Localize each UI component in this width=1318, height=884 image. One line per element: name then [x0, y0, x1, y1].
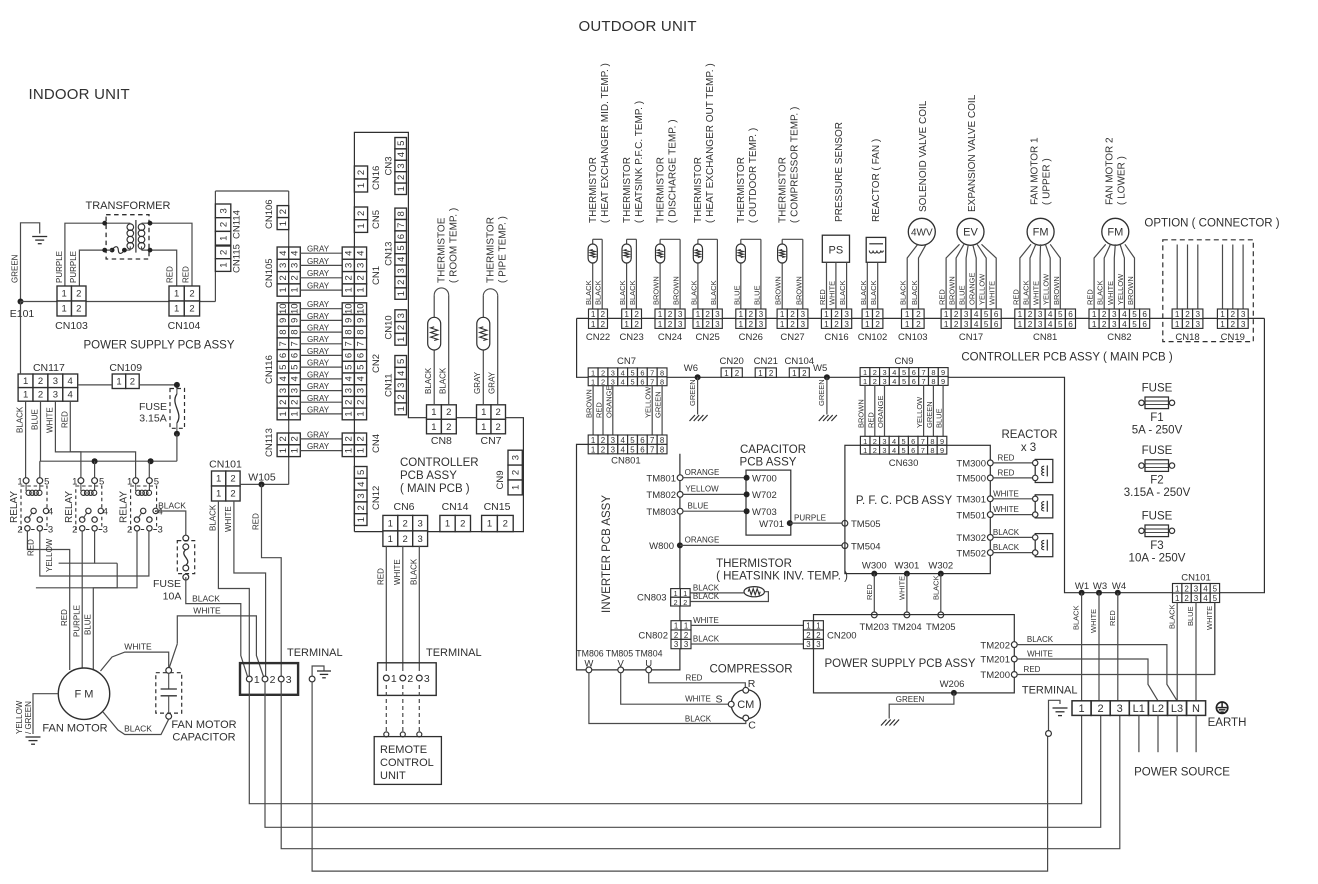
- svg-text:W5: W5: [813, 363, 827, 374]
- connector CN103: [55, 286, 88, 332]
- svg-text:2: 2: [17, 525, 22, 536]
- svg-text:2: 2: [873, 368, 877, 377]
- svg-text:1: 1: [278, 287, 289, 292]
- connector CN25: [693, 309, 722, 343]
- svg-text:THERMISTOE: THERMISTOE: [437, 217, 448, 283]
- thermistor CN22 ( HEAT EXCHANGER MID. TEMP. ): [584, 63, 611, 309]
- svg-text:EXPANSION VALVE COIL: EXPANSION VALVE COIL: [967, 94, 978, 212]
- svg-text:1: 1: [396, 291, 407, 296]
- svg-text:BROWN: BROWN: [652, 276, 661, 305]
- svg-text:5A - 250V: 5A - 250V: [1132, 424, 1183, 436]
- svg-text:3: 3: [816, 640, 821, 649]
- svg-text:3: 3: [674, 640, 679, 649]
- svg-text:2: 2: [873, 437, 877, 446]
- svg-text:6: 6: [912, 368, 916, 377]
- svg-text:W300: W300: [862, 561, 887, 572]
- svg-text:TM806: TM806: [576, 648, 603, 658]
- svg-text:CN802: CN802: [638, 631, 668, 642]
- fuse F1: [1132, 382, 1183, 436]
- svg-text:8: 8: [930, 437, 934, 446]
- svg-text:1: 1: [344, 411, 355, 416]
- svg-text:GREEN: GREEN: [11, 254, 20, 283]
- svg-text:2: 2: [407, 673, 413, 685]
- wire RED U to compressor R: [649, 673, 756, 693]
- svg-text:EARTH: EARTH: [1208, 717, 1247, 729]
- svg-text:RED: RED: [1011, 289, 1020, 305]
- wire WHITE CN101-2 to terminal 2: [224, 501, 266, 677]
- svg-text:TM805: TM805: [606, 648, 633, 658]
- svg-text:REACTOR ( FAN ): REACTOR ( FAN ): [871, 139, 882, 222]
- svg-text:4: 4: [621, 445, 626, 454]
- svg-text:YELLOW: YELLOW: [644, 386, 653, 418]
- wire BLACK CN6-3 to terminal: [410, 546, 420, 671]
- controller pcb assy outline (outdoor): [577, 318, 1265, 592]
- svg-text:GREEN: GREEN: [896, 695, 925, 704]
- svg-text:THERMISTOR: THERMISTOR: [486, 217, 497, 283]
- svg-text:1: 1: [806, 622, 810, 631]
- svg-text:RED: RED: [252, 513, 261, 530]
- wires GRAY CN105 to CN1: [300, 245, 342, 291]
- svg-text:1: 1: [356, 287, 367, 292]
- svg-text:1: 1: [1220, 310, 1225, 319]
- svg-text:3: 3: [882, 377, 886, 386]
- svg-text:TM803: TM803: [646, 507, 676, 518]
- svg-text:1: 1: [431, 422, 436, 433]
- svg-text:4: 4: [1048, 320, 1053, 329]
- svg-text:3.15A: 3.15A: [139, 413, 166, 425]
- wire YELLOW TM802 to W702: [646, 485, 776, 502]
- svg-text:2: 2: [601, 445, 605, 454]
- wire BLUE CN117-2 to relay coil bus: [31, 401, 41, 461]
- fan motor CN81 FAN MOTOR 1: [1011, 137, 1060, 309]
- svg-text:WHITE: WHITE: [1089, 609, 1098, 633]
- wire RED TM500 to reactor 1: [956, 468, 1037, 484]
- svg-text:2: 2: [396, 325, 407, 330]
- svg-text:BLUE: BLUE: [732, 285, 741, 305]
- svg-text:3: 3: [1196, 310, 1201, 319]
- wire harness bus (power supply side): [288, 191, 290, 456]
- svg-text:( HEATSINK P.F.C. TEMP. ): ( HEATSINK P.F.C. TEMP. ): [634, 101, 645, 223]
- svg-text:1: 1: [865, 310, 870, 319]
- svg-text:8: 8: [660, 369, 664, 378]
- svg-text:CN9: CN9: [495, 470, 506, 489]
- svg-text:RED: RED: [61, 411, 70, 428]
- svg-text:2: 2: [601, 436, 605, 445]
- svg-text:CN200: CN200: [827, 631, 857, 642]
- svg-text:F1: F1: [1150, 412, 1163, 424]
- svg-text:10: 10: [278, 303, 289, 314]
- wire WHITE V to compressor S: [621, 673, 734, 707]
- indoor unit title: [29, 86, 130, 103]
- svg-text:1: 1: [591, 310, 596, 319]
- svg-text:CN109: CN109: [109, 362, 142, 374]
- svg-text:3: 3: [715, 310, 720, 319]
- wire BLUE relay RY3 to fan motor: [84, 531, 138, 670]
- svg-text:GRAY: GRAY: [307, 382, 330, 391]
- svg-text:W800: W800: [649, 541, 674, 552]
- svg-text:2: 2: [705, 320, 710, 329]
- svg-text:BROWN: BROWN: [774, 276, 783, 305]
- svg-text:( PIPE TEMP. ): ( PIPE TEMP. ): [498, 216, 509, 283]
- power supply pcb assy (outdoor): [814, 615, 1015, 693]
- svg-text:ORANGE: ORANGE: [685, 468, 720, 477]
- svg-text:1: 1: [1175, 585, 1180, 594]
- svg-text:3: 3: [53, 390, 58, 401]
- svg-text:1: 1: [481, 407, 486, 418]
- wire WHITE TM501 to reactor 2: [956, 505, 1037, 521]
- reactor 2: [1035, 495, 1053, 518]
- svg-text:8: 8: [660, 436, 665, 445]
- svg-text:4: 4: [290, 376, 301, 381]
- svg-text:3: 3: [157, 525, 162, 536]
- controller pcb assy label (indoor): [400, 457, 479, 495]
- svg-text:1: 1: [218, 262, 229, 267]
- svg-text:7: 7: [922, 368, 926, 377]
- svg-text:BLACK: BLACK: [993, 528, 1020, 537]
- svg-text:3: 3: [964, 320, 969, 329]
- svg-text:TM502: TM502: [956, 548, 986, 559]
- wire WHITE CN802-1 to CN200: [691, 616, 803, 626]
- svg-text:7: 7: [278, 341, 289, 346]
- svg-text:BLACK: BLACK: [931, 575, 940, 600]
- svg-text:CN14: CN14: [442, 501, 469, 513]
- svg-text:L2: L2: [1152, 703, 1164, 715]
- svg-text:3: 3: [344, 263, 355, 268]
- remote control unit: [374, 737, 441, 785]
- wire BLUE CN101-3 to terminal N: [1186, 603, 1196, 701]
- svg-text:4: 4: [344, 251, 355, 256]
- svg-text:CN17: CN17: [959, 332, 983, 343]
- svg-text:1: 1: [487, 519, 492, 530]
- ground (outdoor terminal): [1046, 700, 1068, 736]
- svg-text:TM301: TM301: [956, 495, 986, 506]
- reactor 3: [1035, 534, 1053, 557]
- svg-text:BLACK: BLACK: [1022, 280, 1031, 305]
- wire E101 GREEN down to CN117 pin1: [20, 302, 22, 375]
- wire RED CN117-4 to relay RY3: [61, 401, 136, 477]
- svg-text:BLACK: BLACK: [424, 367, 433, 394]
- node E101: [10, 299, 35, 321]
- svg-text:OUTDOOR UNIT: OUTDOOR UNIT: [579, 18, 697, 35]
- svg-text:CAPACITOR: CAPACITOR: [740, 444, 806, 456]
- svg-text:7: 7: [356, 341, 367, 346]
- svg-text:BLACK: BLACK: [594, 280, 603, 305]
- svg-text:RED: RED: [998, 468, 1015, 477]
- svg-text:1: 1: [216, 474, 221, 485]
- pressure sensor PS: [818, 122, 850, 309]
- svg-text:1: 1: [396, 186, 407, 191]
- svg-text:2: 2: [954, 320, 959, 329]
- svg-text:4WV: 4WV: [911, 228, 933, 239]
- svg-text:2: 2: [674, 599, 678, 607]
- node W6 with ground: [684, 363, 708, 421]
- svg-text:WHITE: WHITE: [1032, 281, 1041, 305]
- svg-text:WHITE: WHITE: [1106, 281, 1115, 305]
- svg-text:1: 1: [396, 337, 407, 342]
- thermistor (room temp.): [424, 208, 460, 405]
- svg-text:GRAY: GRAY: [488, 371, 497, 394]
- svg-text:2: 2: [1098, 703, 1104, 715]
- svg-text:1: 1: [1078, 703, 1084, 715]
- svg-text:OPTION ( CONNECTOR ): OPTION ( CONNECTOR ): [1144, 218, 1279, 230]
- svg-text:3: 3: [356, 263, 367, 268]
- svg-text:FUSE: FUSE: [1142, 445, 1173, 457]
- svg-text:BLUE: BLUE: [84, 614, 93, 635]
- wire YELLOW/GREEN fan motor to ground: [15, 694, 58, 734]
- svg-text:6: 6: [1142, 320, 1147, 329]
- svg-text:2: 2: [1102, 310, 1107, 319]
- svg-text:WHITE: WHITE: [1205, 606, 1214, 630]
- svg-text:CN16: CN16: [371, 166, 382, 190]
- svg-text:CN9: CN9: [894, 356, 913, 367]
- svg-text:2: 2: [634, 310, 639, 319]
- connector CN3: [384, 138, 407, 195]
- svg-text:CN21: CN21: [754, 356, 778, 367]
- svg-text:RED: RED: [182, 266, 191, 283]
- svg-text:3: 3: [678, 310, 683, 319]
- svg-text:1: 1: [391, 673, 397, 685]
- svg-text:GRAY: GRAY: [307, 347, 330, 356]
- wire WHITE TM301 to reactor 2: [956, 489, 1037, 505]
- svg-text:TM505: TM505: [851, 519, 881, 530]
- svg-text:INVERTER PCB ASSY: INVERTER PCB ASSY: [601, 495, 613, 613]
- svg-text:3: 3: [278, 388, 289, 393]
- wire BLACK W to compressor C: [589, 673, 756, 732]
- svg-text:F3: F3: [1150, 540, 1163, 552]
- svg-text:GRAY: GRAY: [473, 371, 482, 394]
- svg-text:3: 3: [715, 320, 720, 329]
- nodes TM806 TM805 TM804 (U V W): [576, 648, 662, 672]
- terminal block (outdoor): [1022, 685, 1206, 716]
- wire WHITE TM201 to terminal L2: [980, 649, 1158, 700]
- svg-text:4: 4: [1122, 310, 1127, 319]
- connector CN6: [383, 501, 428, 546]
- svg-text:CN1: CN1: [371, 266, 382, 285]
- svg-text:1: 1: [396, 406, 407, 411]
- svg-text:6: 6: [344, 353, 355, 358]
- svg-text:1: 1: [290, 287, 301, 292]
- svg-text:2: 2: [1102, 320, 1107, 329]
- svg-text:FUSE: FUSE: [1142, 510, 1173, 522]
- svg-text:2: 2: [76, 289, 81, 300]
- svg-text:1: 1: [218, 236, 229, 241]
- wires dashed terminal to remote control unit: [384, 685, 422, 737]
- svg-text:BLUE: BLUE: [1186, 606, 1195, 626]
- svg-text:WHITE: WHITE: [685, 695, 711, 704]
- reactor 1: [1035, 459, 1053, 482]
- connector CN116: [264, 303, 301, 420]
- svg-text:BLUE: BLUE: [958, 285, 967, 305]
- svg-text:3: 3: [396, 163, 407, 168]
- connector CN15: [482, 501, 514, 532]
- svg-text:8: 8: [931, 377, 935, 386]
- svg-text:3: 3: [356, 493, 367, 498]
- svg-text:2: 2: [403, 534, 408, 545]
- wire BLACK CN117-1 to relay RY1: [16, 401, 26, 477]
- svg-text:BLUE: BLUE: [31, 409, 40, 430]
- connector CN803: [637, 589, 690, 607]
- thermistor CN27 ( COMPRESSOR TEMP. ): [774, 107, 804, 309]
- svg-text:2: 2: [278, 400, 289, 405]
- svg-text:6: 6: [911, 446, 915, 455]
- svg-text:RED: RED: [166, 266, 175, 283]
- power supply pcb assy label (indoor): [83, 340, 234, 352]
- svg-text:WHITE: WHITE: [46, 407, 55, 433]
- svg-text:ORANGE: ORANGE: [685, 536, 720, 545]
- svg-text:1: 1: [780, 310, 785, 319]
- svg-text:1: 1: [739, 310, 744, 319]
- svg-text:1: 1: [216, 489, 221, 500]
- wires CN7 to CN801: [585, 385, 663, 435]
- svg-text:CN115: CN115: [232, 244, 243, 273]
- svg-text:3: 3: [417, 518, 422, 529]
- svg-text:GRAY: GRAY: [307, 282, 330, 291]
- svg-text:2: 2: [446, 422, 451, 433]
- svg-text:7: 7: [650, 377, 654, 386]
- controller pcb assy outline (indoor): [354, 132, 523, 531]
- svg-text:2: 2: [834, 310, 839, 319]
- connector CN22: [586, 309, 610, 343]
- svg-text:BLACK: BLACK: [628, 280, 637, 305]
- wire interunit line 3: [281, 682, 1120, 849]
- svg-text:1: 1: [684, 622, 688, 631]
- svg-text:1: 1: [816, 622, 820, 631]
- connector CN7 (indoor): [477, 405, 506, 447]
- svg-text:BLACK: BLACK: [838, 280, 847, 305]
- wire RED W4 to terminal 3: [1108, 593, 1118, 701]
- svg-text:R: R: [748, 678, 756, 690]
- svg-text:1: 1: [1018, 320, 1023, 329]
- svg-text:2: 2: [601, 320, 606, 329]
- connector CN9 (indoor): [495, 450, 522, 495]
- svg-text:FUSE: FUSE: [139, 401, 167, 413]
- svg-text:BLACK: BLACK: [693, 635, 720, 644]
- connector CN10: [384, 310, 407, 345]
- earth symbol: [1208, 702, 1247, 729]
- svg-text:2: 2: [396, 394, 407, 399]
- svg-text:2: 2: [290, 436, 301, 441]
- svg-text:6: 6: [994, 310, 999, 319]
- svg-text:2: 2: [510, 470, 521, 475]
- connector CN5: [354, 207, 382, 232]
- svg-text:2: 2: [684, 631, 688, 640]
- svg-text:TERMINAL: TERMINAL: [287, 647, 343, 659]
- connector CN14 (indoor): [440, 501, 471, 532]
- svg-text:BLACK: BLACK: [439, 367, 448, 394]
- svg-text:1: 1: [1175, 594, 1180, 603]
- svg-text:( UPPER ): ( UPPER ): [1042, 158, 1053, 205]
- svg-text:7: 7: [396, 223, 407, 228]
- node W206 with GREEN ground wire: [881, 679, 964, 726]
- svg-text:CN104: CN104: [785, 356, 815, 367]
- svg-text:TM205: TM205: [926, 622, 956, 633]
- svg-text:2: 2: [496, 407, 501, 418]
- svg-text:1: 1: [696, 320, 701, 329]
- fan motor FM (indoor): [42, 668, 109, 735]
- svg-text:PURPLE: PURPLE: [55, 251, 64, 283]
- thermistor CN23 ( HEATSINK P.F.C. TEMP. ): [618, 101, 645, 309]
- svg-text:2: 2: [668, 310, 673, 319]
- svg-text:1: 1: [905, 320, 910, 329]
- svg-text:TM804: TM804: [635, 648, 662, 658]
- svg-text:1: 1: [481, 422, 486, 433]
- svg-text:6: 6: [640, 369, 644, 378]
- svg-text:2: 2: [76, 304, 81, 315]
- svg-text:YELLOW: YELLOW: [15, 700, 24, 734]
- svg-text:1: 1: [388, 534, 393, 545]
- svg-text:1: 1: [792, 369, 796, 378]
- connector CN200: [803, 621, 856, 650]
- svg-text:2: 2: [290, 275, 301, 280]
- connector CN7 (outdoor): [588, 356, 667, 386]
- svg-text:2: 2: [634, 320, 639, 329]
- svg-text:TM504: TM504: [851, 541, 881, 552]
- svg-text:BLACK: BLACK: [709, 280, 718, 305]
- svg-text:8: 8: [930, 446, 934, 455]
- svg-text:W700: W700: [752, 474, 777, 485]
- svg-text:1: 1: [278, 221, 289, 226]
- wire WHITE CN101-5 down: [1205, 603, 1215, 675]
- connector CN24: [655, 309, 685, 343]
- svg-text:YELLOW: YELLOW: [978, 273, 987, 305]
- svg-text:1: 1: [624, 320, 629, 329]
- svg-text:BLACK: BLACK: [618, 280, 627, 305]
- wires BLACK CN803 to heatsink thermistor: [690, 583, 768, 601]
- svg-text:1: 1: [356, 448, 367, 453]
- fan motor CN82 FAN MOTOR 2: [1086, 137, 1135, 309]
- svg-text:4: 4: [892, 368, 896, 377]
- svg-text:GRAY: GRAY: [307, 300, 330, 309]
- thermistor CN25 ( HEAT EXCHANGER OUT TEMP. ): [689, 63, 718, 309]
- svg-text:5: 5: [356, 470, 367, 475]
- svg-text:2: 2: [460, 519, 465, 530]
- wire WHITE fan motor to capacitor: [101, 642, 178, 672]
- svg-text:5: 5: [984, 310, 989, 319]
- svg-text:1: 1: [1220, 320, 1225, 329]
- svg-text:1: 1: [278, 448, 289, 453]
- svg-text:8: 8: [660, 377, 664, 386]
- svg-text:4: 4: [48, 507, 53, 518]
- svg-text:RELAY: RELAY: [64, 491, 75, 523]
- connector CN630: [860, 436, 946, 469]
- svg-text:4: 4: [974, 310, 979, 319]
- svg-text:6: 6: [356, 353, 367, 358]
- svg-text:( MAIN PCB ): ( MAIN PCB ): [400, 483, 470, 495]
- svg-text:BROWN: BROWN: [672, 276, 681, 305]
- connector CN102: [858, 309, 888, 343]
- svg-text:9: 9: [941, 368, 945, 377]
- svg-text:2: 2: [278, 209, 289, 214]
- svg-text:3: 3: [611, 377, 615, 386]
- svg-text:1: 1: [356, 223, 367, 228]
- wire BLACK W1 to terminal 1: [1072, 593, 1082, 701]
- connector CN27: [777, 309, 808, 343]
- svg-text:RED: RED: [865, 584, 874, 600]
- svg-text:2: 2: [218, 222, 229, 227]
- svg-text:TRANSFORMER: TRANSFORMER: [86, 200, 171, 212]
- svg-text:TM302: TM302: [956, 533, 986, 544]
- svg-text:1: 1: [1175, 320, 1180, 329]
- svg-text:E101: E101: [10, 308, 35, 320]
- svg-text:5: 5: [902, 446, 906, 455]
- svg-text:1: 1: [356, 183, 367, 188]
- svg-text:1: 1: [1092, 320, 1097, 329]
- svg-text:BROWN: BROWN: [1126, 276, 1135, 305]
- svg-text:GRAY: GRAY: [307, 430, 330, 439]
- svg-text:5: 5: [630, 369, 634, 378]
- svg-text:WHITE: WHITE: [224, 506, 233, 532]
- ground (fan motor): [26, 737, 41, 744]
